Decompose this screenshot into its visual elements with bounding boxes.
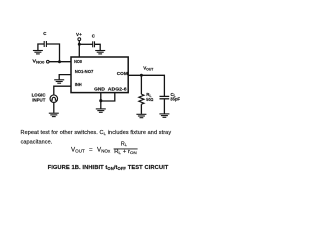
wire input cap right plate to node B [46,44,59,62]
svg-text:COM: COM [117,71,128,76]
source V1 logic pulse generator [50,95,58,103]
wire pin COM to output node and CL elbow [128,75,164,96]
wire pin NO1-NO7 to ground [59,75,71,80]
wire node A down to IC top supply pin [78,44,80,57]
capacitor CL [160,96,170,98]
svg-text:RL: RL [121,141,128,147]
wire supply cap to ground elbow [95,44,101,50]
wire node A to supply cap [79,43,92,45]
svg-text:35pF: 35pF [170,97,180,102]
ground (NO1-NO7) [54,80,64,83]
ground (supply cap) [95,51,105,54]
wire RL to ground [140,104,142,114]
terminal V+ [78,38,81,41]
svg-text:Repeat test for other switches: Repeat test for other switches. CL inclu… [21,130,172,136]
ground (logic source) [49,113,59,116]
svg-text:C: C [92,34,96,39]
ground (CL) [159,114,169,117]
svg-text:50Ω: 50Ω [146,97,154,102]
svg-text:capacitance.: capacitance. [21,140,53,146]
wire VNO0 terminal to pin NO0 [49,61,71,63]
svg-text:INH: INH [75,82,82,87]
node VOUT junction dot [140,74,143,77]
node C junction dot (GND tie) [99,99,102,102]
node A junction dot (V+ rail) [78,43,81,46]
wire input cap left plate to ground elbow [38,44,44,50]
equation fraction bar [114,148,138,150]
wire CL to ground [163,99,165,114]
wire logic source to ground [53,102,55,112]
svg-text:GND: GND [94,86,105,91]
wire VOUT node down to RL [140,75,142,94]
capacitor C (input, at VNO0) [44,41,46,47]
svg-text:VNO0: VNO0 [32,59,44,65]
resistor RL [139,94,144,104]
svg-text:C: C [43,31,47,36]
ground (input cap) [33,51,43,54]
svg-text:VOUT: VOUT [143,65,153,71]
svg-text:FIGURE 1B. INHIBIT tON/tOFF TE: FIGURE 1B. INHIBIT tON/tOFF TEST CIRCUIT [48,165,169,171]
svg-text:VOUT = VNOx: VOUT = VNOx [71,147,111,154]
svg-text:ADG2-6: ADG2-6 [108,87,127,92]
wire pin INH to logic source [54,86,71,95]
svg-text:RL + rON: RL + rON [114,149,137,155]
capacitor C (supply decoupling) [93,41,95,47]
svg-text:NO0: NO0 [74,59,82,64]
wire V+ terminal down to node A [78,41,80,45]
svg-text:INPUT: INPUT [32,98,45,103]
wire GND pin down to node C [100,93,102,101]
terminal VNO0 [47,60,50,63]
ground (RL) [136,114,146,117]
svg-text:NO1-NO7: NO1-NO7 [75,69,94,74]
wire second bottom pin loop to node C [101,93,115,101]
node B junction dot (VNO0 / input cap) [58,60,61,63]
ground (IC GND) [96,109,106,112]
op IC U1 ADG2-6 multiplexer body [71,57,128,93]
wire node C to ground [100,101,102,109]
svg-text:V+: V+ [76,32,82,37]
